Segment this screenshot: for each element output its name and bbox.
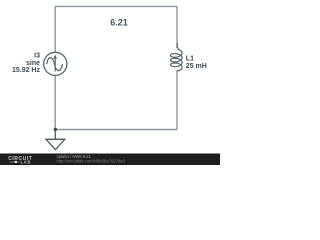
svg-text:LAB: LAB (21, 160, 32, 165)
watermark caption (57, 154, 126, 164)
svg-text:L1: L1 (186, 55, 194, 62)
wire right vertical (top node to L1 pin 1) (176, 6, 178, 48)
label I3 value (I3 / sine / 15.92 Hz) (12, 53, 41, 74)
label L1 value (L1 / 25 mH) (186, 55, 207, 70)
ground (46, 130, 65, 150)
wire left vertical lower (I3 pin 2 to bottom node) (54, 76, 56, 130)
svg-text:I3: I3 (34, 53, 40, 60)
svg-text:6.21: 6.21 (110, 18, 128, 28)
inductor L1 (171, 44, 183, 71)
wire top (node between I3 and L1) (55, 5, 177, 7)
watermark logo CIRCUIT (8, 156, 33, 164)
watermark bar (0, 154, 220, 166)
svg-text:25 mH: 25 mH (186, 63, 207, 70)
node annotation 6.21 (110, 18, 128, 28)
node junction (bottom node dot) (54, 128, 57, 131)
wire bottom (bottom node) (55, 129, 177, 131)
wire left vertical (top of I3 to top node) (54, 6, 56, 52)
wire right vertical lower (L1 pin 2 to bottom node) (176, 71, 178, 130)
svg-text:15.92 Hz: 15.92 Hz (12, 67, 41, 74)
current source I3 (44, 52, 67, 75)
svg-text:http://circuitlab.com/c/8b38a7: http://circuitlab.com/c/8b38a7627da3 (57, 159, 126, 164)
svg-text:sine: sine (26, 60, 40, 67)
